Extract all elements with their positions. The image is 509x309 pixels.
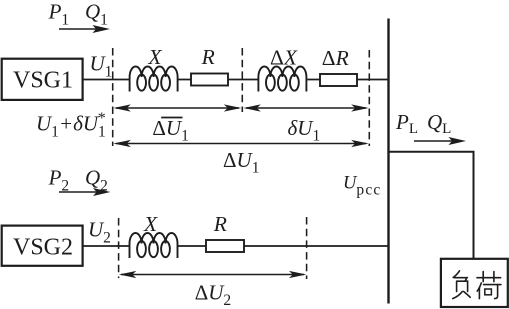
arrow PL QL power flow xyxy=(414,137,466,145)
load label glyph FU (negative) xyxy=(453,271,471,299)
wire coil X to bus (under R) xyxy=(178,245,389,247)
wire VSG2 to coil X xyxy=(83,245,130,247)
wire down to load box xyxy=(473,152,475,258)
wire dX coil to bus (under dR) xyxy=(307,79,388,81)
wire between X coil and dX coil (under R) xyxy=(177,79,258,81)
svg-text:R: R xyxy=(213,212,227,236)
dashed line 3 (before bus) xyxy=(368,50,370,146)
VSG2 box xyxy=(2,226,83,266)
load box xyxy=(441,259,508,307)
svg-text:R: R xyxy=(201,45,215,69)
dimension arrow dU1 (row2 full span) xyxy=(113,140,368,147)
resistor dR xyxy=(320,74,357,86)
dimension arrow dU1bar (row1 left span) xyxy=(113,104,241,111)
resistor R (bottom branch) xyxy=(206,240,244,252)
dimension arrow dU2 xyxy=(119,271,307,278)
dashed line 5 (right of bottom branch) xyxy=(306,217,308,279)
svg-text:X: X xyxy=(147,45,162,69)
inductor dX xyxy=(258,67,306,92)
bus bar (PCC) xyxy=(387,19,389,304)
svg-text:ΔX: ΔX xyxy=(270,46,298,70)
dashed line 2 (between R and dX) xyxy=(241,48,243,112)
wire VSG1 to coil X xyxy=(83,79,130,81)
svg-text:ΔR: ΔR xyxy=(322,46,349,70)
arrow P2 Q2 power flow xyxy=(59,188,111,196)
arrow P1 Q1 power flow xyxy=(59,25,110,33)
inductor X (bottom branch) xyxy=(130,233,178,258)
dashed line 4 (at U2 node) xyxy=(118,218,120,278)
dimension arrow deltaU1 (row1 right span) xyxy=(243,104,368,111)
svg-text:VSG2: VSG2 xyxy=(13,234,73,260)
wire bus to load (horizontal) xyxy=(388,151,475,153)
load label glyph HE (lotus/load) xyxy=(477,272,501,299)
resistor R (top branch) xyxy=(191,74,228,86)
svg-text:X: X xyxy=(143,212,158,236)
overline on U of dU1bar xyxy=(161,117,182,119)
VSG1 box xyxy=(2,59,83,100)
dashed line 1 (at U1 node) xyxy=(112,48,114,146)
inductor X (top branch) xyxy=(130,67,178,92)
svg-text:VSG1: VSG1 xyxy=(13,68,73,94)
